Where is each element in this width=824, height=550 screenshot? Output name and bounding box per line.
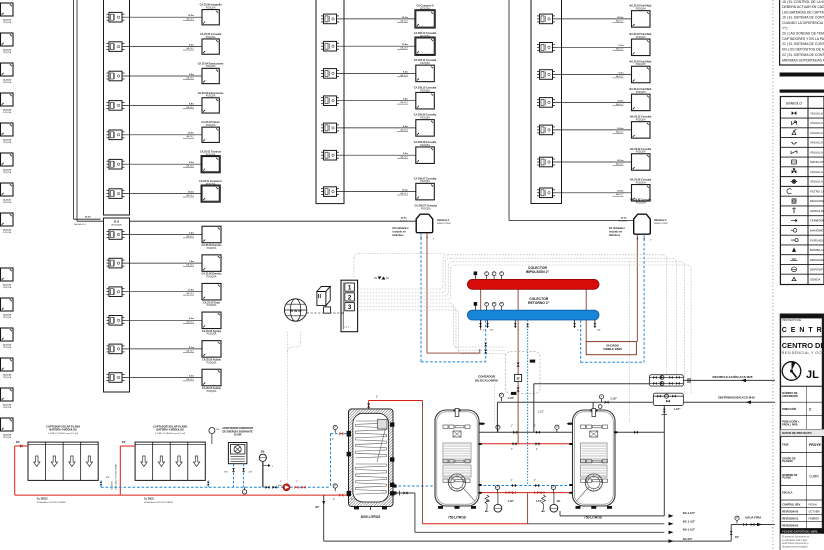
svg-text:1-1/2": 1-1/2" [508,501,514,503]
svg-text:RESIDENCIAL Y OCUPA: RESIDENCIAL Y OCUPA [782,351,824,355]
svg-text:Hidróbox 2: Hidróbox 2 [654,219,667,222]
wire bus2 to fan coil 6 [125,377,203,379]
svg-text:1-1/2": 1-1/2" [610,398,617,401]
svg-text:VÁLVULA DE VACIADO: VÁLVULA DE VACIADO [810,180,824,184]
svg-text:1-1/2": 1-1/2" [538,411,544,414]
bus3 pump unit 1 [324,14,337,24]
svg-text:20 | LAS SONDAS DE TEMPER: 20 | LAS SONDAS DE TEMPER [782,32,824,36]
distribucion pipe [497,401,653,403]
fan coil unit L11 [1,328,14,341]
svg-text:45,4m: 45,4m [401,216,407,219]
svg-text:OCTUBR: OCTUBR [809,509,820,513]
svg-text:P02/Q5A: P02/Q5A [207,333,217,336]
fan coil CA Comunes II [416,11,435,28]
wire top lines to pump groups [448,254,663,256]
fan coil CA.Z0.05 Dormito [202,255,221,272]
svg-text:4D+10,2: 4D+10,2 [399,220,408,222]
svg-text:20,1m: 20,1m [617,160,623,162]
blue stub below blue bar left [485,320,487,362]
recirculacion pipe [534,383,650,385]
svg-text:35L: 35L [261,450,266,453]
svg-text:6A-10,7: 6A-10,7 [400,74,408,77]
wire bus1 to fan coil 4 [125,104,203,106]
svg-text:8,1m: 8,1m [189,347,194,349]
svg-text:P02/Q5A: P02/Q5A [206,6,216,9]
red pipe y492.6 tanks [478,492,572,494]
svg-text:6A-10,7: 6A-10,7 [616,48,624,51]
svg-text:RETORNO 2": RETORNO 2" [528,301,550,305]
svg-text:10,5m: 10,5m [188,15,194,17]
svg-text:1": 1" [332,439,334,441]
svg-text:40,6m: 40,6m [621,216,627,219]
svg-text:P02/Q5A: P02/Q5A [206,124,216,127]
svg-text:PROYECTO DE:: PROYECTO DE: [782,318,802,322]
bus2 pump unit 3 [109,287,122,297]
svg-text:1": 1" [333,499,335,501]
svg-text:CENTRO DE: CENTRO DE [782,341,824,350]
recirculation pump group [649,375,683,386]
tank1 drain to NA line [394,492,415,494]
svg-text:6A-10,7: 6A-10,7 [186,47,194,50]
svg-text:16,2m: 16,2m [617,128,623,130]
svg-text:P02/Q5A: P02/Q5A [3,346,12,349]
fan coil CA.Z0.05 Aulario [202,341,221,358]
NC line [528,523,665,525]
wire bus3 to fan coil 7 [339,191,416,193]
wire bus2 to fan coil 2 [125,262,203,264]
svg-text:4D+4L4,2: 4D+4L4,2 [618,220,628,222]
svg-text:3/4": 3/4" [16,441,20,444]
svg-text:P02/Q5A: P02/Q5A [206,36,216,39]
svg-text:VÁLVULA MEZCLADORA: VÁLVULA MEZCLADORA [810,170,824,174]
colector impulsion red bar [467,279,599,289]
svg-text:6A-10,7: 6A-10,7 [186,76,194,79]
svg-text:6A-10,7: 6A-10,7 [186,18,194,21]
svg-text:P02/Q5A: P02/Q5A [206,65,216,68]
hidrobox1 blue drop [420,233,422,362]
svg-text:DESAGÜE: DESAGÜE [810,258,824,262]
fan coil NA.Z6.08 Consulta [632,185,651,202]
drain vertical from red line [323,495,325,541]
blue stub below blue bar right [580,320,582,362]
blue dotted riser to tanks [527,320,529,486]
svg-text:PROYE: PROYE [809,443,822,447]
fichero exportado band [780,528,824,533]
blue pipe horizontal to hidrobox1 [421,361,486,363]
wire bus4 to fan coil 3 [555,74,632,76]
svg-text:18 | EL CONTROL DE LA INSTA: 18 | EL CONTROL DE LA INSTA [782,0,824,4]
bus1 pump unit 3 [109,71,122,81]
svg-text:7,4m: 7,4m [189,260,194,263]
svg-text:P02/Q5A: P02/Q5A [420,144,430,147]
svg-text:P02/Q6H: P02/Q6H [636,201,646,204]
blue solar return pipe [101,486,331,488]
svg-text:10,5m: 10,5m [188,133,194,135]
fan coil CA.Z06.10 Consulta [416,92,435,109]
svg-text:DEPÓSITO EXPANSIÓN: DEPÓSITO EXPANSIÓN [810,267,824,272]
wire bus4 to fan coil 2 [555,46,632,48]
svg-text:6A-10,7: 6A-10,7 [616,75,624,78]
contador dashed enclosure [506,352,541,394]
fan coil NA.Z3.03 Unid Mult. [632,11,651,28]
fan coil unit L7 [1,183,14,196]
distribucion left elbow to tank header [496,402,498,432]
bus3 pump unit 7 [324,187,337,197]
svg-text:Cu 26/22: Cu 26/22 [144,498,155,501]
red riser x422.5 [422,401,424,524]
svg-text:1": 1" [272,466,274,468]
svg-text:1": 1" [536,449,538,451]
router antenna module [324,307,331,313]
svg-text:6A-10,7: 6A-10,7 [400,156,408,159]
air vent 20L [211,434,213,444]
svg-text:8,5m: 8,5m [403,71,408,73]
internet globe WWW [284,299,306,321]
blue pipe y485.5 tanks [394,485,435,487]
svg-text:P02/Q5A: P02/Q5A [3,231,12,234]
svg-text:7°C: 7°C [782,26,788,30]
svg-text:P02/Q5A: P02/Q5A [420,62,430,65]
fan coil NA.Z6.10 Consulta [632,122,651,138]
drop to NA lines [663,406,665,516]
svg-text:9,2m: 9,2m [189,375,194,377]
solar pump group [266,486,270,489]
svg-text:6A-10,7: 6A-10,7 [186,135,194,138]
svg-text:1": 1" [510,480,512,482]
svg-text:20L: 20L [216,429,220,431]
svg-text:LAS BATERÍAS DE CAPTADO: LAS BATERÍAS DE CAPTADO [782,10,824,14]
svg-text:P02/Q5A: P02/Q5A [207,276,217,279]
svg-text:PURGADOR: PURGADOR [810,238,824,242]
svg-text:IS 10: IS 10 [114,222,120,224]
recirculacion drop to tank header [533,384,535,433]
gauges and vessels between tanks [495,485,499,489]
svg-text:CURR: CURR [809,474,819,478]
svg-text:6A-10,7: 6A-10,7 [186,292,194,295]
svg-text:22 | EL SISTEMA DE CONTROL: 22 | EL SISTEMA DE CONTROL [782,53,824,57]
tank3 top connection [592,402,594,411]
fan coil CA.Z0.07 [202,186,219,201]
sensors above red bar [474,272,477,275]
sensors above blue bar [474,302,477,305]
svg-text:CUANDO LA DIFERENCIA DE T: CUANDO LA DIFERENCIA DE T [782,21,824,25]
svg-text:19 | EL SISTEMA DE CONTROL: 19 | EL SISTEMA DE CONTROL [782,16,824,20]
row direccion [780,415,824,417]
svg-text:REVISION 02: REVISION 02 [782,523,799,527]
svg-text:1": 1" [577,330,579,332]
svg-text:o o o: o o o [344,327,350,329]
title block top bar [780,314,824,318]
wire bus2 to fan coil 5 [125,348,203,350]
svg-text:P02/Q6H: P02/Q6H [636,91,646,94]
svg-text:P02/Q5A: P02/Q5A [3,286,12,289]
agua fria drop [730,525,732,542]
fan coil CA.Z0.02 [202,39,219,54]
array stub valves [100,482,103,485]
maroon vertical pipe from red bar left [480,289,482,330]
svg-text:750 LITROS: 750 LITROS [448,516,466,520]
bus2 pump unit 2 [109,258,122,268]
hidrobox2 blue drop [643,234,645,362]
svg-text:20,3m: 20,3m [617,17,623,19]
svg-text:EXPEDIENTE: EXPEDIENTE [782,395,798,398]
svg-text:CONTROL REV.: CONTROL REV. [782,504,801,507]
bus4 pump unit 1 [540,14,553,24]
wire bus3 to fan coil 1 [339,18,416,20]
wire drop to tank2 sensor [494,384,496,422]
bus3 pump unit 4 [324,96,337,106]
svg-text:JL: JL [806,369,819,381]
svg-text:3/4": 3/4" [315,506,319,509]
aerotermo stubs [233,464,235,488]
svg-text:6A-10,7: 6A-10,7 [186,235,194,238]
red pipe y443.8 between tanks [478,443,572,445]
maroon vertical pipe red bar right [585,289,587,342]
svg-text:1-1/2": 1-1/2" [508,397,515,400]
svg-text:9,3m: 9,3m [619,72,624,74]
svg-text:WWXDY22kW: WWXDY22kW [437,223,451,225]
fan coil unit L2 [1,33,14,46]
tank3 side ports [567,422,573,425]
NA line 3 [324,540,732,542]
svg-text:WWXDY22kW: WWXDY22kW [654,223,668,225]
wire line above bus bundle [353,258,355,280]
row nombre de plano [780,484,824,486]
contador valves [517,363,520,367]
svg-text:4,9m: 4,9m [403,125,408,128]
svg-text:Cu 28X22: Cu 28X22 [37,498,48,501]
svg-text:VISIBLE DN20: VISIBLE DN20 [603,347,622,351]
svg-text:VÁLVULA DE CORTE: VÁLVULA DE CORTE [810,111,824,115]
svg-text:6A-10,7: 6A-10,7 [616,103,624,106]
bus2 pump unit 5 [109,344,122,354]
svg-text:3/4": 3/4" [224,472,228,474]
svg-text:10,1m: 10,1m [402,17,408,19]
red pipe horizontal to hidrobox1 [427,352,480,354]
svg-text:P02/Q5A: P02/Q5A [3,81,12,84]
svg-text:6A-10,7: 6A-10,7 [616,19,624,22]
distribution bus column 1 [104,0,130,215]
fan coil CA.Z0.01 [202,10,219,25]
fan coil unit L14 [1,418,14,431]
blue pipe horizontal to hidrobox2 [581,361,644,363]
tank1 ports [347,431,351,437]
svg-text:REVISION 00: REVISION 00 [782,509,799,513]
fan coil unit L9 [1,268,14,281]
hidrobox 1 [416,214,433,233]
fan coil CA.Z0.05 Aulario [202,369,221,386]
svg-text:FEBRER: FEBRER [809,516,820,520]
fan coil NA.Z6.09 Consulta [632,154,651,171]
svg-text:PLANOS: PLANOS [782,460,793,463]
NA line 1 [560,515,664,517]
svg-text:1-1/2": 1-1/2" [674,408,681,411]
svg-text:16 KW: 16 KW [234,434,242,437]
bus4 pump unit 7 [540,188,553,198]
svg-text:AGUA FRÍA: AGUA FRÍA [745,514,762,519]
svg-text:9,5m: 9,5m [189,232,194,234]
wire bus3 to fan coil 4 [339,100,416,102]
bus1 pump unit 2 [109,42,122,52]
separator bar thin [780,90,824,93]
row datos de proyecto [780,429,824,436]
svg-text:6A-10,7: 6A-10,7 [186,165,194,168]
svg-text:MANÓMETRO: MANÓMETRO [810,228,824,233]
pipe run to Hidrobox 1 [77,220,417,222]
svg-text:3/4": 3/4" [122,441,126,444]
svg-text:Hidróbox: Hidróbox [609,234,621,237]
svg-text:ESCALA: ESCALA [782,492,792,495]
svg-text:P02/Q5A: P02/Q5A [420,7,430,10]
notes text block [780,0,824,65]
blue return array2 with vent [207,480,209,487]
svg-text:1": 1" [518,330,520,332]
row numero de expediente [780,401,824,403]
fan coil unit L12 [1,358,14,371]
svg-text:1.138LO 1Y8x110 mm (2,1 m²): 1.138LO 1Y8x110 mm (2,1 m²) [155,432,185,435]
svg-text:FICHERO EXPORTADO: ABRIL: FICHERO EXPORTADO: ABRIL [782,530,818,533]
svg-text:NA 3/4": NA 3/4" [683,537,694,541]
svg-text:DIRECCIÓN: DIRECCIÓN [782,408,796,411]
svg-text:P02/Q5A: P02/Q5A [3,406,12,409]
svg-text:1": 1" [433,239,435,241]
red riser tank1 top [368,401,370,411]
svg-text:REVISION 01: REVISION 01 [782,516,799,520]
wire bus1 to fan coil 2 [125,46,203,48]
svg-text:1-1/2": 1-1/2" [536,501,542,503]
svg-text:12L: 12L [557,500,562,503]
svg-text:1: 1 [348,285,352,292]
svg-text:U: U [517,376,520,381]
wire drop to solar pump [287,332,289,485]
bus3 pump unit 2 [324,41,337,51]
fan coil CA.Z06.12 Consulta [416,38,435,55]
svg-text:PLANO: PLANO [782,477,791,480]
svg-text:25,9m: 25,9m [85,217,91,219]
red feed tank1 bottom left [339,494,343,497]
svg-text:1": 1" [296,481,298,483]
fan coil CA.Z0.05 Estar [202,283,221,300]
svg-text:3/4": 3/4" [249,472,253,474]
svg-text:P02/Q5A: P02/Q5A [207,390,217,393]
wire bus2 to fan coil 1 [125,234,203,236]
svg-text:P02/Q5A: P02/Q5A [206,95,216,98]
svg-text:HTHeatflex 5 HT-22/LO BWH: HTHeatflex 5 HT-22/LO BWH [37,501,66,504]
svg-text:3000 LITROS: 3000 LITROS [361,515,381,519]
svg-text:Hidróbox: Hidróbox [393,234,405,237]
wire bus1 to fan coil 5 [125,134,203,136]
svg-text:8,2m: 8,2m [189,162,194,164]
svg-text:12,4m: 12,4m [402,43,408,46]
svg-text:6,3m: 6,3m [189,318,194,320]
svg-text:MÁXIMAS SOPORTADAS POR: MÁXIMAS SOPORTADAS POR [782,58,824,62]
svg-text:1": 1" [483,330,485,332]
contador kilocalorias meter [515,374,522,381]
svg-text:P02/Q5A: P02/Q5A [3,201,12,204]
wire bus1 to fan coil 7 [125,193,203,195]
svg-text:6A-10,7: 6A-10,7 [616,162,624,165]
svg-text:P02/Q5A: P02/Q5A [420,116,430,119]
solar collector array [28,442,98,480]
NA NC labels [669,514,674,518]
svg-text:11,8m: 11,8m [188,290,194,292]
svg-text:6A-10,7: 6A-10,7 [400,19,408,22]
bus3 pump unit 5 [324,123,337,133]
svg-text:VÁLVULA DE EQUILIBRADO: VÁLVULA DE EQUILIBRADO [810,141,824,145]
svg-text:DEBERÁ ACTUAR EN CADA M: DEBERÁ ACTUAR EN CADA M [782,5,824,9]
svg-text:autorización expresa de s: autorización expresa de s [782,542,809,545]
wire bus1 to fan coil 6 [125,163,203,165]
svg-text:P02/Q5A: P02/Q5A [420,89,430,92]
bus4 pump unit 2 [540,43,553,53]
tank 2 750 litros [435,410,479,506]
hidrobox 2 [634,214,651,234]
svg-text:NA 1-1/2": NA 1-1/2" [683,528,696,532]
svg-text:1": 1" [650,240,652,242]
svg-text:P02/Q6H: P02/Q6H [636,36,646,39]
svg-text:P02/Q5A: P02/Q5A [3,436,12,439]
bus2 pump unit 4 [109,316,122,326]
svg-text:P02/Q5A: P02/Q5A [3,171,12,174]
fan coil CA.Z0.06 [202,157,219,172]
svg-text:3: 3 [348,304,352,311]
svg-text:12,3m: 12,3m [402,190,408,192]
red solar supply pipe [15,445,28,447]
svg-text:C: C [809,407,812,411]
svg-text:NA 1-1/2": NA 1-1/2" [683,511,696,515]
svg-text:su utilización total o parc: su utilización total o parc [782,539,808,542]
svg-text:El presente documento es: El presente documento es [782,535,810,538]
purgador under blue line [244,487,246,489]
svg-text:EN LOS DEPÓSITOS DE ACUM: EN LOS DEPÓSITOS DE ACUM [782,46,824,51]
wires into contador [504,346,506,348]
svg-text:1": 1" [534,426,536,428]
simbolo legend table [780,97,824,285]
svg-text:6A-10,7: 6A-10,7 [186,106,194,109]
svg-text:TERMÓMETRO: TERMÓMETRO [810,218,824,223]
svg-text:P02/Q5A: P02/Q5A [420,180,430,183]
wire bus3 to fan coil 3 [339,72,416,74]
riser to hidrobox 2 [508,0,510,221]
svg-text:W W W: W W W [290,309,302,313]
svg-text:Hidróbox 1: Hidróbox 1 [437,219,450,222]
hidrobox2 red drop [636,234,638,341]
wire bus2 to fan coil 4 [125,319,203,321]
agua fria inlet [731,524,775,526]
svg-text:3/4": 3/4" [735,536,739,539]
svg-text:DISTRIBUCIÓN ACS Ø40: DISTRIBUCIÓN ACS Ø40 [718,394,755,399]
svg-text:FASE: FASE [782,443,789,446]
bus1 pump unit 7 [109,189,122,199]
svg-text:8,9m: 8,9m [403,153,408,155]
svg-text:8,8m: 8,8m [189,103,194,105]
vaciado red loop [586,342,636,355]
wire bus4 to fan coil 5 [555,129,632,131]
wire bus2 to fan coil 3 [125,291,203,293]
row escala [780,499,824,501]
svg-text:6A-10,7: 6A-10,7 [400,128,408,131]
svg-text:6A-10,7: 6A-10,7 [186,321,194,324]
svg-text:VÁLVULA DE SEGURIDAD: VÁLVULA DE SEGURIDAD [810,131,824,135]
svg-text:22,9m: 22,9m [617,191,623,193]
svg-text:3/4": 3/4" [106,477,110,479]
svg-text:DATOS DE PROYECTO: DATOS DE PROYECTO [782,431,811,435]
svg-text:P02/Q5A: P02/Q5A [207,247,217,250]
svg-text:C E N T R O: C E N T R O [782,327,824,334]
valves on blue drop [484,343,487,347]
svg-text:SONDA DE TEMPERATURA: SONDA DE TEMPERATURA [810,209,824,213]
wire drop to tank3 sensor [629,262,631,423]
